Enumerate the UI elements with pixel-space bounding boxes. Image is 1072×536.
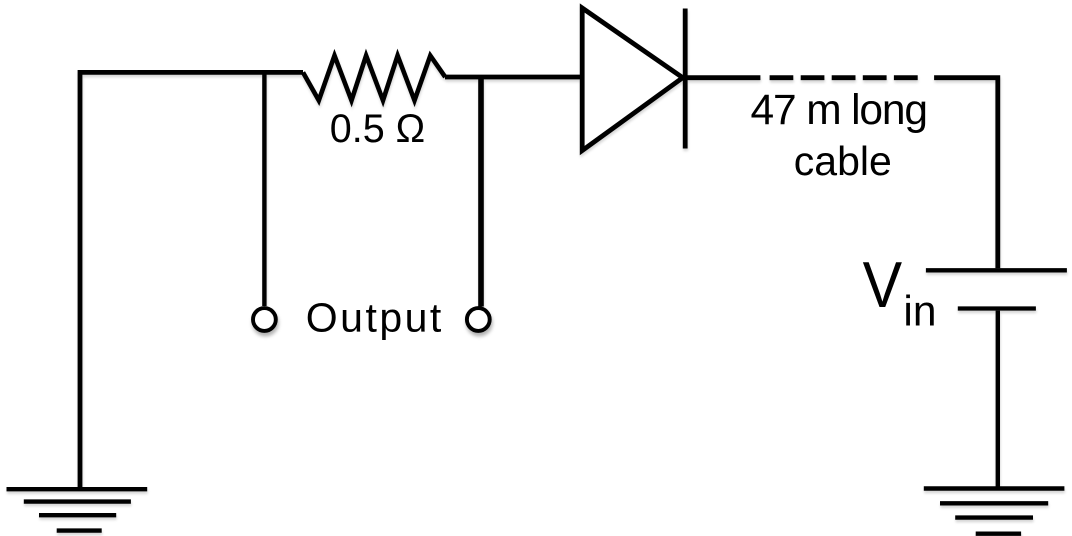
svg-text:cable: cable	[794, 138, 892, 184]
svg-text:Output: Output	[306, 295, 442, 341]
svg-text:V: V	[863, 248, 903, 321]
svg-text:in: in	[903, 289, 936, 336]
svg-text:0.5 Ω: 0.5 Ω	[330, 107, 425, 151]
svg-text:47 m long: 47 m long	[751, 87, 929, 134]
